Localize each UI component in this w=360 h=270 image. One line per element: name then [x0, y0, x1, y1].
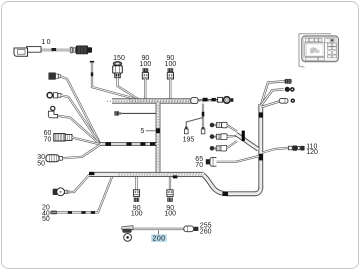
wire	[92, 63, 135, 99]
svg-text:100: 100	[131, 210, 143, 217]
tick	[81, 211, 85, 214]
map blob on screen	[310, 47, 317, 51]
connector b2	[285, 87, 290, 92]
wire	[122, 112, 156, 114]
dotted centre line	[107, 100, 218, 102]
tick	[156, 128, 160, 133]
wire down from trunk	[202, 104, 204, 127]
wire	[118, 78, 139, 99]
bead on cable 10	[52, 48, 57, 51]
connector body	[142, 73, 148, 79]
wire	[61, 95, 100, 143]
nub	[231, 98, 234, 102]
trunk end cap	[191, 97, 198, 103]
trunk curve to lower right run	[203, 175, 261, 194]
svg-text:100: 100	[164, 210, 176, 217]
tick	[259, 154, 263, 161]
svg-text:70: 70	[44, 137, 52, 144]
trunk tube	[258, 104, 263, 189]
svg-text:150: 150	[113, 55, 125, 62]
tick	[222, 192, 228, 196]
connector b1	[285, 79, 292, 84]
svg-text:70: 70	[195, 162, 203, 169]
wire	[57, 176, 113, 213]
round connector (antenna plug)	[224, 97, 231, 104]
branch wire left	[186, 118, 203, 127]
trunk tube	[90, 172, 204, 177]
wire	[169, 177, 171, 190]
terminal a	[185, 127, 188, 129]
terminal	[114, 111, 118, 115]
left wedge end	[122, 226, 133, 230]
right connector	[184, 226, 194, 232]
tape mark	[126, 142, 131, 146]
cable c3	[210, 146, 215, 151]
connector right of cable 10	[70, 47, 72, 53]
socket	[53, 189, 58, 195]
tape mark	[150, 142, 155, 146]
connector dark cap	[168, 68, 174, 72]
connector body	[167, 190, 173, 197]
tick	[259, 112, 263, 117]
connector body	[133, 190, 139, 197]
tick	[89, 172, 94, 175]
tick	[91, 211, 95, 214]
connector body	[46, 155, 59, 162]
leader line	[146, 130, 156, 132]
connector 150 body	[113, 66, 123, 73]
svg-text:10: 10	[41, 39, 51, 46]
tape mark	[140, 142, 145, 146]
bottom strip	[305, 57, 317, 60]
svg-text:50: 50	[37, 160, 45, 167]
connector	[289, 146, 293, 150]
tape bar	[242, 131, 245, 141]
wire (cable 10 body)	[40, 49, 72, 52]
svg-text:195: 195	[183, 136, 195, 143]
back slab edge	[299, 34, 331, 68]
right button grid	[327, 43, 331, 46]
svg-text:100: 100	[140, 61, 152, 68]
terminal b	[202, 127, 205, 129]
svg-text:50: 50	[42, 216, 50, 223]
unit face	[302, 36, 339, 62]
wire	[169, 79, 171, 99]
wire	[61, 76, 101, 143]
connector L-shaped	[51, 106, 55, 110]
connector left of cable 10	[27, 47, 42, 53]
tape mark	[105, 142, 111, 146]
bead	[212, 98, 216, 101]
tick	[173, 175, 178, 178]
wire b2	[261, 89, 284, 105]
trunk tube	[156, 103, 161, 172]
svg-text:5: 5	[140, 128, 144, 135]
tick	[91, 72, 93, 76]
connector dark cap	[134, 198, 139, 202]
highlighted label 200	[151, 234, 167, 242]
cable	[131, 228, 184, 230]
bundle	[100, 142, 157, 145]
svg-text:120: 120	[306, 149, 318, 156]
connector square-head	[49, 73, 56, 80]
small ferrule	[218, 97, 223, 102]
bundle to trunk	[236, 134, 259, 150]
wire	[72, 137, 100, 144]
dark shell	[122, 229, 131, 233]
wire	[144, 79, 146, 101]
wire	[217, 156, 260, 162]
bead	[203, 98, 208, 102]
connector body	[54, 134, 65, 141]
terminal	[50, 211, 57, 215]
connector b3	[279, 98, 288, 103]
screen	[305, 43, 325, 57]
trunk tube	[112, 98, 198, 103]
svg-text:200: 200	[152, 236, 165, 243]
wire	[58, 116, 100, 144]
cap	[90, 61, 94, 63]
wire	[135, 177, 137, 190]
leader to 200	[158, 231, 160, 235]
cable c2	[210, 134, 215, 139]
wire	[69, 175, 90, 193]
connector ring-type	[47, 93, 52, 98]
svg-text:100: 100	[165, 61, 177, 68]
tick	[202, 112, 205, 117]
wire b3	[262, 102, 280, 108]
connector 150 cap	[113, 62, 121, 66]
pigtail wire	[198, 99, 222, 101]
grommet circle	[124, 234, 132, 242]
wire b1	[261, 81, 285, 105]
tick	[68, 211, 72, 214]
cable c1	[210, 123, 215, 128]
connector	[206, 159, 210, 164]
connector dark cap	[143, 68, 149, 72]
wire	[63, 145, 101, 158]
top button strip	[305, 38, 309, 41]
wire	[263, 148, 290, 153]
connector body	[167, 73, 173, 79]
label 5 with leader	[140, 128, 155, 135]
connector dark cap	[167, 198, 172, 202]
svg-text:260: 260	[200, 229, 212, 236]
